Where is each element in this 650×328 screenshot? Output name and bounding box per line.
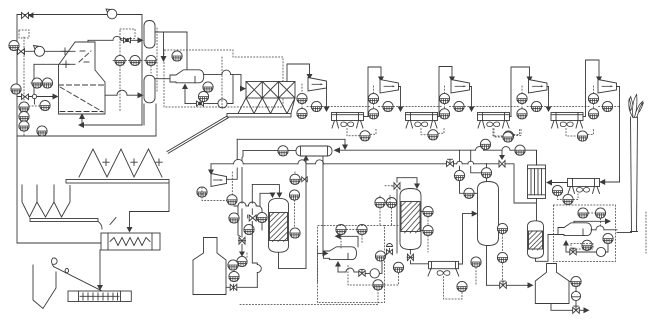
wire recycle line y=125 with left arrow (82, 124, 142, 126)
wire compressor outlet down (399, 87, 401, 109)
instrument cluster near drum riser (290, 174, 300, 184)
wire C3 overhead pipe (486, 178, 488, 182)
wire E3 outlet to flare base (591, 229, 596, 231)
valve V9 (230, 284, 237, 290)
instrument I9 on long line (37, 126, 47, 136)
instrument TI1 below cooler (360, 131, 370, 141)
wire L1 into drum (339, 149, 476, 151)
wire E3 circulation loop (565, 244, 567, 252)
instrument TI3 below cooler (503, 131, 513, 141)
truss support (238, 98, 295, 114)
valve V4 (124, 38, 131, 43)
bottle T1 (193, 238, 226, 295)
wire compressor outlet down (547, 87, 549, 109)
instrument below HX3 (457, 281, 467, 291)
wire branch from corner 243,150.4 down (242, 150, 243, 160)
wire bottle outlet (226, 286, 230, 288)
dotted flare control line (645, 212, 647, 253)
valve V1 on top line (22, 13, 34, 19)
screw conveyor (101, 233, 160, 250)
instrument trio left (19, 102, 29, 112)
ejector E1 (170, 70, 204, 83)
wire K1 outlet down to cooler 1 (326, 85, 328, 109)
valve V3 (22, 94, 29, 100)
wire cooler outlet riser to compressor 1 (287, 64, 310, 82)
wire riser x=144 to y=125 (143, 104, 145, 125)
wire L2 long line y=163.8 (211, 163, 234, 165)
instrument I2 (9, 40, 19, 50)
flag pole with curls (54, 267, 106, 293)
wire valve-station line y=40.3 (88, 39, 113, 41)
compressor K3 (451, 80, 470, 94)
wire C3 bottoms (486, 246, 488, 286)
wire interstage hook (368, 67, 381, 117)
instrument row between vessels (115, 55, 125, 65)
wire vessel B inlet y=95.2 (105, 94, 117, 96)
wire K5 outlet to flare header (617, 87, 620, 183)
wire long bottom line y=136 (17, 135, 156, 137)
exchanger HX3 (429, 261, 459, 268)
tick mark (110, 218, 116, 225)
instrument I11 I12 inside box (203, 82, 213, 92)
valve V14 on tank feed (487, 284, 500, 286)
wire column1 upper feed (260, 193, 273, 206)
pump P5 (596, 247, 605, 256)
wire left frame lower (17, 136, 101, 243)
compressor K2 (380, 80, 399, 94)
valve V8 (248, 215, 257, 221)
wire line y=139.3 (237, 138, 345, 140)
wire branch to column C3 side (459, 150, 461, 161)
instrument right of tank (571, 276, 581, 286)
air cooler E5 (568, 179, 600, 194)
node junction circle (32, 94, 36, 98)
wire HX4 bottom pipe to column C4 (536, 199, 538, 222)
wire C4 bottoms to ejector feed riser (536, 235, 559, 262)
air cooler E-C4 (551, 113, 583, 129)
wire top header line (17, 14, 142, 16)
air cooler E-C3 (478, 113, 510, 129)
dashed equipment box 3 (554, 205, 616, 262)
tube exchanger HX4 (528, 165, 546, 199)
wire drum downcomer x=323 (322, 156, 324, 253)
wire interstage hook (586, 60, 600, 117)
pump P2 (34, 46, 45, 57)
instrument right of C2 (423, 206, 433, 216)
inclined conveyor (167, 116, 228, 153)
chute (98, 222, 102, 230)
packed column C4 (528, 221, 544, 258)
vessel A (144, 21, 155, 49)
dotted box around valve (120, 29, 135, 39)
wire pump to furnace (45, 50, 76, 52)
compressor K6 (211, 174, 227, 187)
instrument pair left of C2 (375, 198, 385, 208)
hopper row (22, 185, 70, 217)
dotted pump enclosure (348, 266, 399, 286)
instrument cluster dashed box 2 (336, 224, 346, 234)
wire compressor outlet down (470, 87, 472, 109)
wire bump jump (113, 36, 121, 40)
valve V10 (392, 183, 400, 190)
wire HX3 outlet riser to big column (459, 214, 475, 264)
packed column C1 (269, 198, 289, 252)
valve V13 on L2 (499, 161, 505, 168)
base plate (227, 114, 291, 118)
instrument on x=262 (257, 212, 267, 222)
wire vessel B to ejector nozzle (155, 78, 170, 80)
wire E3 overhead arrow (574, 220, 607, 222)
instrument left of wavy (227, 195, 237, 205)
instrument I6 (40, 100, 50, 110)
wire ejector bottom loop (184, 88, 186, 104)
wire E2 feed (318, 252, 324, 254)
node plus marks (103, 159, 109, 166)
instrument TI4 below cooler (577, 131, 587, 141)
wire corner drop x=34 (33, 64, 35, 94)
stockpile zigzag (79, 149, 162, 177)
wire wavy left drop to valve (234, 206, 241, 237)
air cooler E-C1 (332, 113, 364, 129)
valve V11 (407, 254, 414, 261)
instrument on overhead (481, 168, 491, 178)
wire screw feed from y=211.5 (130, 184, 170, 229)
wire drum feed line y=150.4 (243, 149, 296, 151)
dashed equipment box 2 (240, 195, 390, 305)
air cooler E-C2 (406, 113, 438, 129)
flare stack (631, 117, 638, 232)
wire L2 corner drop to K6 (210, 164, 212, 171)
wire drum riser x=306 (305, 159, 307, 269)
belt feeder 2 (68, 291, 131, 302)
wire interstage hook (511, 67, 530, 117)
horizontal drum D1 (296, 146, 332, 156)
wire right frame vertical (141, 15, 143, 126)
wire E2 circulation loop (337, 265, 339, 272)
wire riser x=156 from vessel B (155, 104, 157, 136)
node L2 bump over risers (234, 159, 244, 163)
ejector E2 (324, 247, 357, 260)
instrument in mini dotted box (582, 240, 592, 250)
wire C2 feed header (397, 178, 417, 185)
wire flare gas line y=182 with arrows (603, 181, 620, 183)
belt conveyor (30, 219, 98, 222)
valve V2 feed (18, 49, 25, 55)
instrument K6 (197, 187, 207, 197)
wire vessel A right nozzle path (155, 31, 187, 33)
wavy transfer line (234, 205, 238, 207)
wire column1 bottoms (279, 252, 307, 268)
valve V7 on x=242.5 (238, 237, 245, 244)
valve V6 on L2 (447, 159, 454, 166)
valve V5 (197, 101, 204, 106)
instrument right (603, 233, 613, 243)
pump P3 (218, 99, 227, 108)
valve on drum riser (302, 177, 308, 182)
wire K6 outlet riser to y=139.3 (227, 168, 238, 179)
packed column C2 (400, 189, 421, 250)
instrument mid (244, 224, 254, 234)
instrument on L1 (480, 139, 490, 149)
furnace F1 body (59, 42, 106, 114)
dotted equipment boxes (164, 50, 283, 107)
valve V16 (573, 306, 580, 313)
instrument I10 (172, 51, 182, 61)
wire wavy right drop x=262 (261, 210, 263, 212)
air cooler X boxes (246, 82, 295, 99)
instrument on branch (454, 170, 464, 180)
instruments above E3 (578, 208, 588, 218)
wire HX4 top pipe from L1 corner (536, 151, 538, 165)
wire ejector outlet y=74.4 (204, 73, 223, 75)
control valve with round actuator (387, 244, 393, 255)
wire valve drop from L1 x=502 (501, 150, 503, 156)
instrument above with dotted (503, 132, 513, 142)
compressor K5 (598, 80, 617, 94)
valve V12 (359, 269, 365, 276)
dotted instrument chain (394, 106, 620, 108)
instrument pot cluster (237, 256, 247, 266)
V-bin (33, 265, 56, 309)
wire C2 bottoms (409, 250, 411, 255)
vessel B (144, 75, 155, 103)
wire overhead lateral from L1 (470, 150, 472, 161)
wire E2 overhead (339, 236, 358, 247)
big column C3 (478, 182, 499, 246)
wire screw outlet down to belt 2 (99, 250, 101, 287)
node plus mark (63, 61, 69, 68)
wire interstage hook (439, 67, 452, 117)
dotted connectors (113, 28, 157, 112)
column C1 feed header (252, 185, 279, 194)
wire stub below junction (34, 99, 36, 104)
instrument below E5 (552, 185, 562, 195)
instrument I1 (11, 84, 21, 94)
instrument I7 I8 on dashed (32, 78, 42, 88)
pump P1 on top line (106, 9, 117, 19)
wire feed line y=64.3 (34, 63, 59, 65)
valve V15 (570, 248, 576, 255)
compressor K4 (529, 80, 548, 94)
wire tank bottom outlet (551, 304, 573, 311)
furnace internal dashed lines (59, 51, 106, 112)
wire up into furnace bottom (81, 115, 83, 125)
ejector E3 (558, 223, 592, 236)
wire injector arrow line y=96.5 (17, 96, 32, 98)
node plus mark (62, 48, 68, 55)
final product tank T2 (535, 264, 569, 304)
instrument TI2 below cooler (428, 130, 438, 140)
flare flame (629, 95, 644, 118)
wire left frame vertical (16, 15, 18, 137)
instrument I-drum (278, 146, 288, 156)
wire riser x=252.3 (251, 185, 253, 204)
wire flare base line (617, 232, 632, 234)
compressor K1 (308, 78, 327, 92)
instrument right of C3 (497, 223, 507, 233)
wire feed line y=51.3 (25, 50, 35, 52)
instrument cluster K1 (297, 93, 307, 103)
dotted control lines left (19, 30, 42, 136)
stockpile base plate (66, 180, 169, 184)
instrument below (229, 213, 239, 223)
wire furnace top to valve line (87, 40, 89, 42)
pump P4 (370, 269, 379, 278)
